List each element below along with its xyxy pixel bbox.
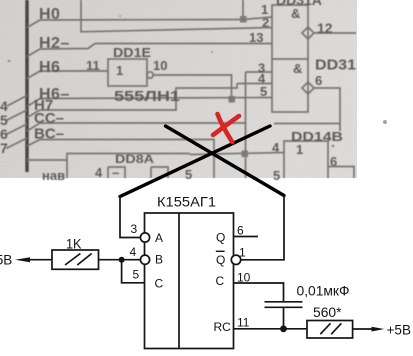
input circle pin4 [140, 255, 149, 264]
speck 4 [119, 15, 121, 17]
svg-text:H0: H0 [39, 6, 60, 23]
svg-text:11: 11 [86, 58, 100, 73]
wire pin4 DD31B [237, 83, 272, 85]
wire H6- to pin5 DD31B [27, 98, 272, 107]
wire H2- [27, 44, 95, 57]
svg-text:3: 3 [131, 222, 138, 236]
resistor R1 1K box [52, 250, 99, 269]
wire H6 to DD1E pin 11 [27, 71, 108, 79]
resistor R2 560 box [307, 321, 353, 339]
R2 slash 1 [320, 323, 330, 334]
R1 slash 1 [65, 254, 80, 266]
svg-text:6: 6 [237, 224, 244, 238]
wire pin6 stub [234, 236, 259, 238]
wire pin12 [314, 32, 356, 34]
gate DD31 box [272, 5, 308, 112]
box DD8A top [67, 154, 190, 179]
wire DD1E out [154, 75, 232, 99]
svg-text:10: 10 [237, 271, 251, 285]
svg-text:B: B [155, 253, 163, 267]
svg-text:C: C [155, 277, 164, 291]
svg-text:6: 6 [315, 73, 322, 88]
svg-text:&: & [291, 6, 300, 21]
left branch 7 [6, 138, 27, 149]
svg-text:560*: 560* [313, 304, 342, 320]
scanned page background [0, 0, 357, 178]
svg-text:C: C [216, 274, 225, 288]
junction dot [229, 96, 236, 103]
capacitor C1 plate bottom [265, 306, 303, 308]
DD8A pin box 1 [108, 167, 125, 178]
wire R1 to +5V left [28, 259, 52, 261]
svg-text:7: 7 [0, 140, 8, 156]
output circle pin1 [231, 255, 240, 264]
svg-text:Q: Q [216, 231, 225, 245]
speck right [383, 120, 387, 124]
wire cap to RC line [283, 307, 285, 329]
svg-text:10: 10 [153, 58, 167, 73]
speck 2 [332, 145, 335, 148]
wire under DD31 [274, 123, 340, 125]
box DD14B [284, 141, 328, 178]
gate divider [272, 58, 308, 60]
svg-text:BC–: BC– [34, 126, 64, 143]
speck [8, 60, 11, 63]
scan text labels [0, 0, 356, 183]
inverter DD1E box [108, 59, 147, 86]
svg-text:13: 13 [249, 30, 263, 45]
DD8A pin box 2 [151, 167, 168, 178]
wire pin10 C to cap [234, 283, 284, 301]
wire 1K to pin4 [99, 259, 141, 261]
long vertical node [245, 72, 247, 178]
svg-text:1: 1 [239, 246, 246, 260]
junction dot H0 [240, 16, 247, 23]
speck 3 [211, 51, 213, 53]
wire pin1 to cross [241, 196, 284, 260]
node on H0 [243, 0, 272, 20]
svg-text:2: 2 [262, 15, 269, 30]
R2 slash 2 [331, 323, 341, 334]
svg-text:DD8A: DD8A [115, 152, 154, 166]
svg-text:555ЛН1: 555ЛН1 [114, 88, 180, 105]
left branch 5 [6, 110, 27, 121]
red cross stroke 1 [218, 114, 233, 142]
chip divider [178, 213, 180, 349]
junction dot RC [280, 325, 287, 332]
svg-text:DD1E: DD1E [113, 45, 151, 60]
wire R2 to +5V [353, 328, 372, 330]
svg-text:5: 5 [273, 168, 280, 183]
junction dot pin4 [242, 151, 249, 158]
wire pin3 DD31B [246, 71, 273, 73]
black cross line A [120, 126, 270, 197]
svg-text:H6: H6 [39, 59, 60, 76]
svg-text:4: 4 [95, 165, 103, 180]
svg-text:5: 5 [185, 167, 192, 182]
output diamond DD31B pin6 [302, 82, 314, 94]
svg-text:+5В: +5В [387, 322, 412, 338]
wire DD14B pin6 [328, 167, 354, 179]
svg-text:1: 1 [296, 142, 303, 157]
wire to pin5 [122, 260, 145, 283]
red cross stroke 2 [213, 116, 239, 135]
wire pin3 to cross [120, 197, 140, 238]
Qbar overline [216, 250, 225, 252]
wire into DD8A [27, 159, 67, 161]
wire H7 [27, 84, 237, 118]
svg-text:К155АГ1: К155АГ1 [157, 193, 216, 209]
svg-text:4: 4 [130, 245, 137, 259]
wire H0 [27, 20, 243, 28]
svg-text:0,01мкФ: 0,01мкФ [297, 283, 350, 299]
wire CC- [27, 123, 246, 131]
svg-text:+5В: +5В [0, 252, 12, 268]
svg-text:H2–: H2– [39, 35, 70, 52]
arrow +5V left [15, 257, 30, 262]
wire BC- [27, 140, 214, 179]
svg-text:1: 1 [116, 63, 123, 78]
R1 slash 2 [77, 254, 91, 266]
left branch 6 [6, 124, 27, 135]
left branch 4 [7, 96, 27, 107]
arrow +5V right [372, 327, 385, 332]
svg-text:12: 12 [317, 20, 333, 36]
output diamond DD31A pin12 [302, 27, 314, 39]
wire pin13 DD31A [95, 43, 272, 45]
bus (thick vertical wire bundle) [25, 0, 28, 172]
svg-text:11: 11 [237, 316, 250, 330]
wire DD14B pin4 [190, 153, 284, 155]
svg-text:Q: Q [216, 253, 225, 267]
svg-text:5: 5 [133, 268, 140, 282]
svg-text:DD31: DD31 [315, 57, 356, 74]
wire pin11 RC [234, 328, 308, 330]
chip U1 K155AG1 body [145, 213, 234, 349]
svg-text:6: 6 [330, 154, 337, 169]
capacitor C1 plate top [265, 301, 303, 303]
junction dot B net [119, 257, 125, 263]
svg-text:5: 5 [260, 84, 267, 99]
svg-text:RC: RC [214, 320, 232, 334]
black cross line B [166, 126, 285, 196]
svg-text:1K: 1K [66, 236, 82, 252]
DD1E output circle pin 10 [147, 72, 153, 78]
svg-text:CC–: CC– [34, 110, 64, 127]
wire DD31B out [314, 88, 340, 131]
svg-text:нав: нав [42, 168, 65, 183]
input circle pin3 [140, 233, 149, 242]
wire pin2 DD31A [81, 0, 272, 32]
svg-text:4: 4 [272, 140, 280, 155]
svg-text:–: – [112, 165, 119, 180]
svg-text:A: A [155, 231, 163, 245]
svg-text:&: & [293, 61, 302, 76]
